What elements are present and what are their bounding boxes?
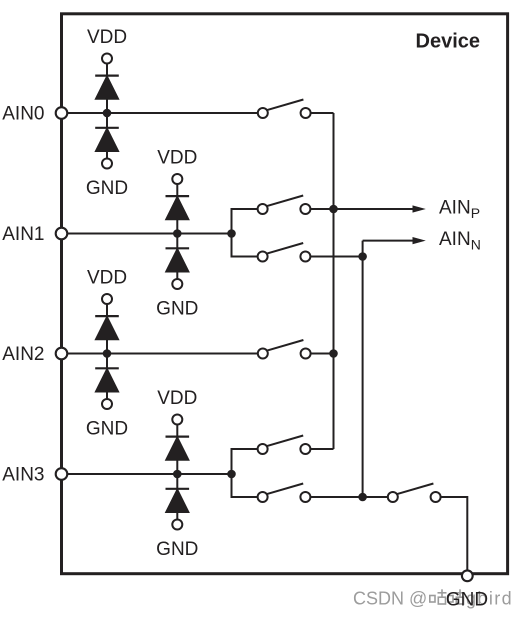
ESD diode pair D5/D6 on AIN2	[95, 294, 119, 409]
svg-text:AIN1: AIN1	[2, 224, 44, 245]
node bus P / AINP junction	[329, 205, 338, 214]
svg-text:AIN2: AIN2	[2, 344, 44, 365]
node AIN1 branch junction	[227, 229, 236, 238]
wire AINN output line	[363, 240, 414, 242]
wire AIN3 upper switch to bus P bottom corner	[305, 448, 333, 450]
wire AIN3 input line	[62, 473, 232, 475]
terminal AIN3	[56, 468, 68, 480]
switch SW3P (AIN3 to bus P)	[258, 436, 311, 455]
wire bus P (vertical)	[333, 113, 335, 449]
ESD diode pair D3/D4 on AIN1	[166, 174, 190, 289]
device boundary box	[62, 14, 508, 574]
wire AIN1 lower switch to bus N	[305, 256, 362, 258]
switch SW1N (AIN1 to bus N)	[258, 243, 311, 262]
wire AIN0 input line	[62, 112, 263, 114]
svg-text:VDD: VDD	[87, 267, 127, 288]
svg-text:VDD: VDD	[157, 147, 197, 168]
wire AIN2 input line	[62, 353, 263, 355]
wire AIN3 branch bracket	[232, 449, 263, 497]
watermark glyph gu 2	[448, 589, 465, 604]
switch SWG (AIN3 to GND)	[388, 484, 441, 503]
wire AIN2 switch to bus P	[306, 353, 334, 355]
watermark glyph gu 1	[430, 589, 447, 604]
wire AIN0 switch to bus P corner	[306, 112, 334, 114]
svg-text:GND: GND	[86, 178, 128, 199]
svg-text:Device: Device	[416, 31, 481, 53]
wire AIN1 input line	[62, 233, 232, 235]
switch SW3N (AIN3 to bus N)	[258, 484, 311, 503]
switch SW2 (AIN2 to bus P)	[258, 340, 311, 359]
svg-text:VDD: VDD	[87, 27, 127, 48]
switch SW0 (AIN0 to bus P)	[258, 100, 311, 119]
watermark text CSDN	[353, 589, 513, 609]
svg-text:GND: GND	[156, 299, 198, 320]
wire AIN1 branch bracket	[232, 209, 263, 257]
svg-text:AIN3: AIN3	[2, 465, 44, 486]
ESD diode pair D1/D2 on AIN0	[95, 54, 119, 169]
arrowhead AINN	[413, 237, 426, 244]
terminal AIN2	[56, 348, 68, 360]
wire AIN3 lower switch to GND switch	[305, 496, 392, 498]
node bus N upper junction	[358, 252, 367, 261]
ESD diode pair D7/D8 on AIN3	[166, 415, 190, 530]
svg-text:CSDN @: CSDN @	[353, 589, 427, 609]
node bus P / AIN2 junction	[329, 349, 338, 358]
terminal GND (bottom)	[462, 570, 473, 581]
wire AINP output line	[305, 208, 414, 210]
svg-text:AIN0: AIN0	[2, 104, 44, 125]
node AIN3 branch junction	[227, 470, 236, 479]
terminal AIN1	[56, 228, 68, 240]
svg-text:GND: GND	[446, 589, 488, 610]
wire bus N (vertical)	[362, 241, 364, 497]
arrowhead AINP	[413, 205, 426, 212]
svg-text:GND: GND	[86, 419, 128, 440]
wire GND switch to GND terminal	[436, 497, 468, 571]
switch SW1P (AIN1 to bus P)	[258, 196, 311, 215]
terminal AIN0	[56, 107, 68, 119]
svg-text:GND: GND	[156, 539, 198, 560]
node bus N lower junction	[358, 493, 367, 502]
svg-text:VDD: VDD	[157, 388, 197, 409]
